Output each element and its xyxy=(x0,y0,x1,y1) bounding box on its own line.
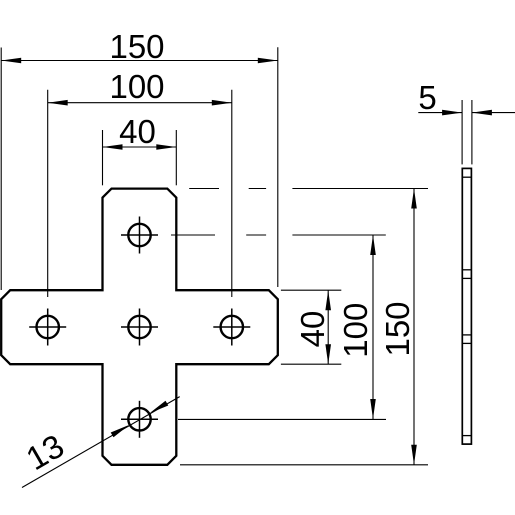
svg-text:40: 40 xyxy=(119,113,156,150)
svg-text:5: 5 xyxy=(418,79,436,116)
svg-text:150: 150 xyxy=(109,28,164,65)
svg-text:40: 40 xyxy=(294,311,331,348)
svg-text:100: 100 xyxy=(109,68,164,105)
svg-text:100: 100 xyxy=(337,303,374,358)
svg-text:150: 150 xyxy=(379,301,416,356)
